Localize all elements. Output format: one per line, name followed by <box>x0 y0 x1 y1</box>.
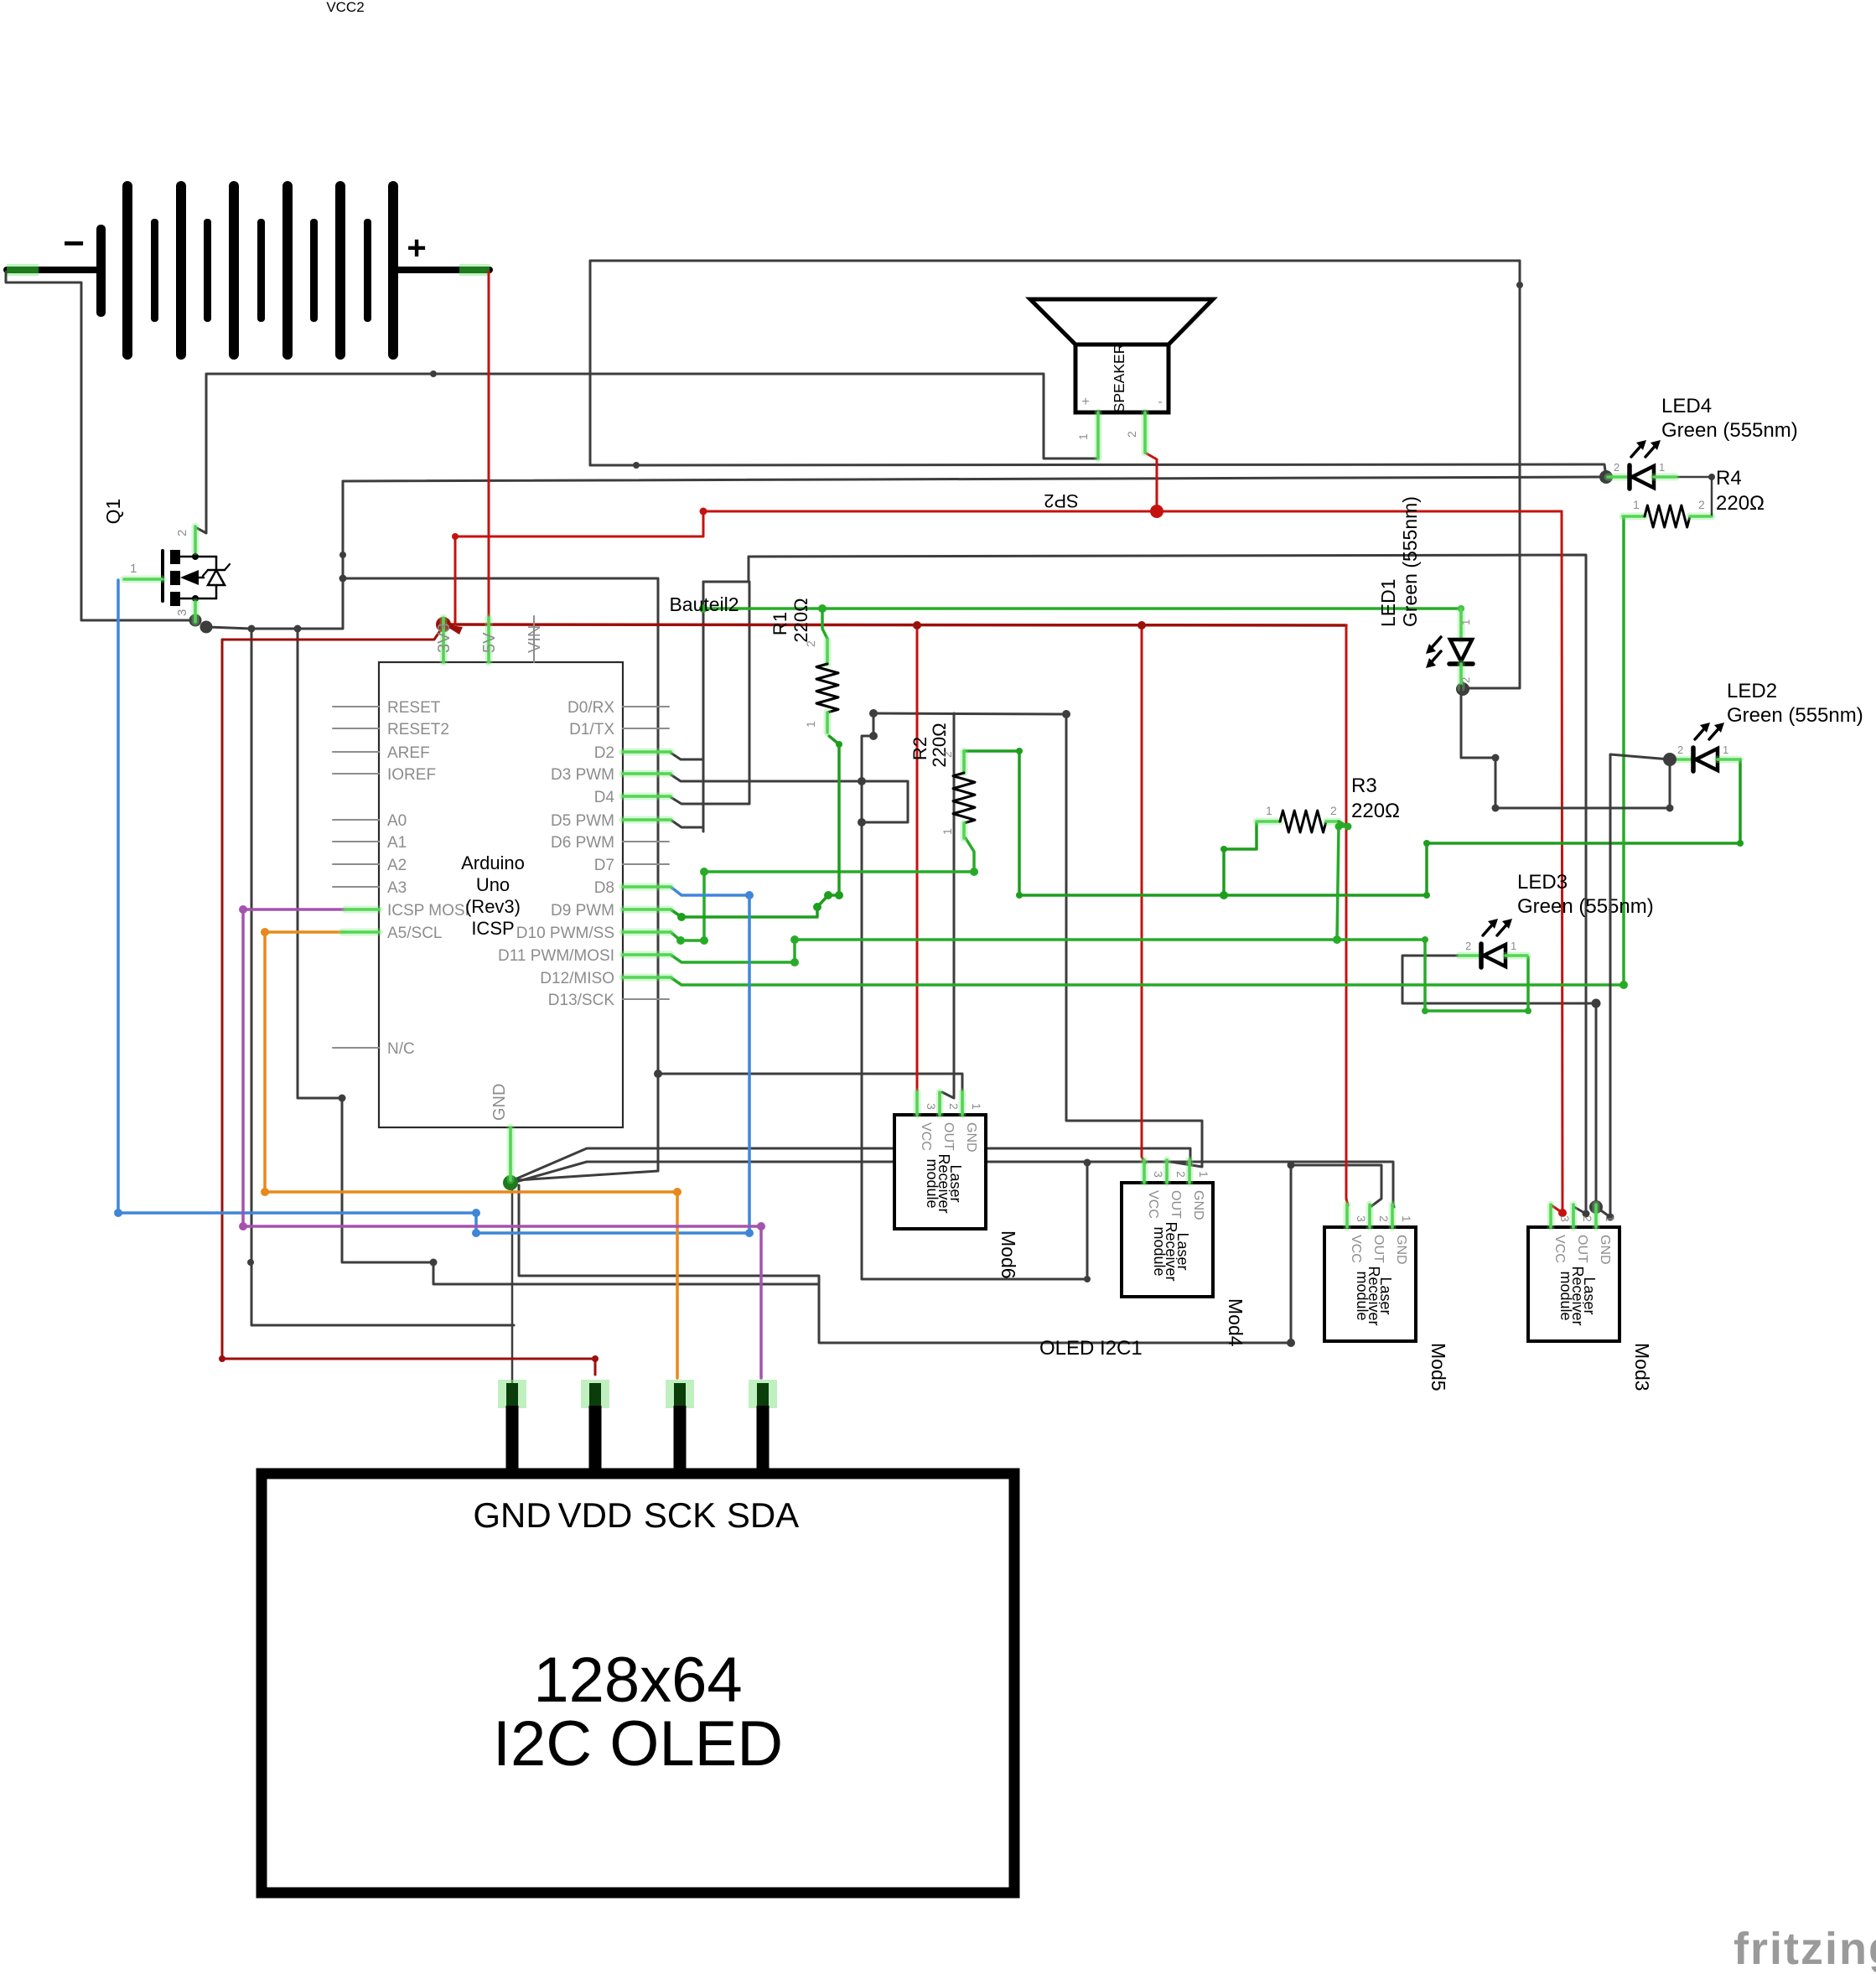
svg-text:220Ω: 220Ω <box>929 723 950 767</box>
svg-text:1: 1 <box>941 828 954 835</box>
svg-text:GND: GND <box>490 1084 509 1121</box>
LED LED2 <box>1671 756 1693 764</box>
svg-text:Uno: Uno <box>476 874 510 895</box>
svg-text:1: 1 <box>1400 1215 1413 1222</box>
LED LED1 (vertical) <box>1458 609 1465 640</box>
resistor R4 220 ohm (horizontal) <box>1623 513 1645 521</box>
wire Bauteil2 vertical (D2/D5) <box>702 582 705 832</box>
svg-text:D6 PWM: D6 PWM <box>551 834 614 852</box>
svg-text:2: 2 <box>1698 498 1705 511</box>
battery BAT1 <box>7 267 102 273</box>
svg-text:GND: GND <box>964 1122 978 1153</box>
svg-text:VCC2: VCC2 <box>326 0 364 15</box>
svg-text:A1: A1 <box>387 834 407 852</box>
module Mod4 laser receiver <box>1122 1183 1213 1297</box>
svg-text:LED4: LED4 <box>1661 395 1712 417</box>
mcu Arduino Uno U1 <box>379 662 623 1127</box>
svg-text:R4: R4 <box>1716 467 1742 490</box>
svg-text:module: module <box>1151 1226 1168 1276</box>
resistor R3 220 ohm (horizontal) <box>1257 818 1280 826</box>
svg-text:GND: GND <box>1598 1235 1612 1265</box>
svg-text:ICSP: ICSP <box>471 918 514 939</box>
svg-text:RESET2: RESET2 <box>387 721 449 738</box>
svg-text:SDA: SDA <box>727 1495 799 1535</box>
svg-text:1: 1 <box>1604 1215 1617 1222</box>
svg-text:Mod4: Mod4 <box>1225 1298 1246 1347</box>
wire 5V rail to Mod4 VCC <box>1142 625 1145 1163</box>
svg-text:SPEAKER: SPEAKER <box>1111 344 1127 413</box>
svg-text:R1: R1 <box>770 612 790 635</box>
wire GND stub node <box>503 1175 518 1190</box>
svg-text:LED3: LED3 <box>1517 871 1568 894</box>
module Mod3 laser receiver <box>1528 1227 1619 1341</box>
svg-text:D3 PWM: D3 PWM <box>551 766 614 784</box>
svg-text:220Ω: 220Ω <box>1351 800 1400 822</box>
svg-text:D8: D8 <box>594 879 614 897</box>
svg-text:A3: A3 <box>387 879 407 897</box>
svg-text:VCC: VCC <box>1349 1235 1363 1263</box>
svg-text:GND: GND <box>1394 1235 1408 1265</box>
svg-text:OUT: OUT <box>1371 1235 1386 1263</box>
svg-text:VIN: VIN <box>526 625 544 653</box>
svg-text:D2: D2 <box>594 744 614 762</box>
svg-text:GND: GND <box>473 1495 551 1535</box>
svg-text:module: module <box>1354 1271 1371 1320</box>
svg-text:+: + <box>1081 395 1089 409</box>
svg-text:D0/RX: D0/RX <box>567 699 614 717</box>
svg-text:LED1: LED1 <box>1377 578 1399 627</box>
wire Q1 drain riser to speaker plus <box>195 374 1098 533</box>
svg-text:R2: R2 <box>909 737 930 760</box>
wire SP2 net jog down to 5V rail <box>455 511 703 624</box>
svg-text:OUT: OUT <box>1169 1190 1183 1219</box>
svg-text:Green (555nm): Green (555nm) <box>1661 419 1798 442</box>
svg-text:1: 1 <box>1659 461 1665 474</box>
wire D5 jog <box>671 820 703 827</box>
svg-text:2: 2 <box>1459 677 1472 683</box>
display OLED 128x64 I2C <box>262 1474 1014 1893</box>
svg-text:−: − <box>63 223 85 264</box>
wire SP2 red horizontal <box>703 510 1562 513</box>
wire branch to Mod6 GND <box>658 1074 962 1092</box>
svg-text:2: 2 <box>1125 431 1138 438</box>
wire 5V rail to VDD (OLED) <box>222 624 595 1375</box>
svg-text:OLED I2C1: OLED I2C1 <box>1039 1337 1143 1360</box>
svg-text:2: 2 <box>1614 461 1619 474</box>
svg-text:Q1: Q1 <box>102 499 124 525</box>
svg-text:module: module <box>924 1158 941 1208</box>
svg-text:2: 2 <box>1377 1215 1391 1222</box>
svg-text:Bauteil2: Bauteil2 <box>669 593 738 615</box>
wire R2 pin2 to LED2 anode <box>964 751 1740 895</box>
wire LED1 anode rail <box>703 609 1461 612</box>
wire mesh rectangle under R2 <box>862 781 908 822</box>
svg-text:VCC: VCC <box>1146 1190 1160 1219</box>
wire R1 pin2 jog <box>822 609 827 639</box>
svg-text:A2: A2 <box>387 857 407 874</box>
svg-text:3: 3 <box>1355 1215 1368 1222</box>
svg-text:D5 PWM: D5 PWM <box>551 812 614 830</box>
svg-text:2: 2 <box>804 640 817 647</box>
wire upper horizontal to LED4 cathode <box>590 464 1606 477</box>
svg-text:D4: D4 <box>594 789 615 806</box>
svg-text:AREF: AREF <box>387 744 430 762</box>
svg-text:Mod5: Mod5 <box>1428 1343 1449 1391</box>
svg-text:2: 2 <box>175 530 189 536</box>
svg-text:(Rev3): (Rev3) <box>465 896 521 917</box>
wire y851 run to Mod4 OUT <box>873 713 1202 1167</box>
module Mod5 laser receiver <box>1324 1227 1416 1341</box>
svg-text:A5/SCL: A5/SCL <box>387 925 442 942</box>
wire GND fan to Mod4 GND <box>513 1148 1191 1180</box>
wire under-Mod6 loop <box>862 1163 1087 1279</box>
svg-text:1: 1 <box>1197 1171 1210 1178</box>
wire SP2 down to Mod3 VCC <box>1552 511 1562 1213</box>
svg-text:2: 2 <box>1465 940 1471 952</box>
wire battery plus down to 5V node <box>488 272 490 624</box>
svg-text:I2C OLED: I2C OLED <box>493 1708 783 1780</box>
svg-text:1: 1 <box>1459 619 1472 625</box>
svg-text:N/C: N/C <box>387 1040 415 1058</box>
wire speaker minus to SP2 <box>1145 453 1157 511</box>
svg-text:128x64: 128x64 <box>533 1645 742 1716</box>
wire D11 to R3 pin2 / LED3 anode <box>671 940 1528 1011</box>
svg-text:Arduino: Arduino <box>461 852 525 873</box>
svg-text:3: 3 <box>175 609 189 616</box>
wire branch y690 down left side <box>343 578 658 1180</box>
svg-text:D13/SCK: D13/SCK <box>548 992 615 1009</box>
svg-text:3: 3 <box>925 1103 938 1110</box>
wire ICSP MOSI purple to OLED SDA <box>243 909 761 1378</box>
svg-text:2: 2 <box>1174 1171 1188 1178</box>
wire D9 to R1 pin1 <box>671 736 839 917</box>
svg-text:SP2: SP2 <box>1044 490 1079 511</box>
wire R3 pin1 drop to LED2 net <box>1224 823 1257 895</box>
svg-text:fritzing: fritzing <box>1733 1924 1876 1974</box>
svg-text:3: 3 <box>1152 1171 1165 1178</box>
svg-text:Mod6: Mod6 <box>998 1231 1019 1279</box>
junction speaker minus <box>1150 505 1163 518</box>
speaker SP2 <box>1030 299 1213 345</box>
wire GND fan to Mod5 GND <box>513 1162 1394 1207</box>
junction LED4 cathode <box>1599 470 1613 484</box>
wire to Mod5 OUT <box>1291 1165 1381 1343</box>
wire D3 into lower mesh <box>671 775 862 781</box>
svg-text:3: 3 <box>1558 1215 1572 1222</box>
svg-text:2: 2 <box>1581 1215 1594 1222</box>
resistor R2 220 ohm (vertical) <box>961 751 968 773</box>
svg-text:LED2: LED2 <box>1727 680 1777 702</box>
svg-text:2: 2 <box>941 751 954 758</box>
junction Q1 source node <box>189 614 202 627</box>
svg-text:VCC: VCC <box>919 1122 933 1151</box>
svg-text:1: 1 <box>1511 940 1516 952</box>
svg-text:Green (555nm): Green (555nm) <box>1517 895 1654 918</box>
wire staircase x355 to OLED I2C1 line <box>298 629 819 1284</box>
svg-text:1: 1 <box>804 721 817 728</box>
wire Q1 source node right to x409 riser <box>206 481 343 629</box>
svg-text:OUT: OUT <box>941 1122 956 1151</box>
svg-text:module: module <box>1557 1271 1574 1320</box>
wire D12 to R4 pin1 <box>671 517 1624 985</box>
svg-text:VDD: VDD <box>558 1495 633 1535</box>
svg-text:A0: A0 <box>387 812 407 830</box>
wire 5V rail end to Mod5 VCC <box>1346 625 1348 1205</box>
LED LED4 <box>1608 474 1630 481</box>
wire top loop to LED1 cathode <box>590 261 1520 688</box>
wire long horizontal to LED4 cathode (lower) <box>343 477 1606 481</box>
wire D8 blue to Q1 gate <box>118 580 749 1233</box>
junction x300 <box>248 625 256 633</box>
svg-text:R3: R3 <box>1351 775 1377 797</box>
module Mod6 laser receiver <box>894 1115 986 1229</box>
svg-text:GND: GND <box>1191 1190 1205 1220</box>
svg-text:1: 1 <box>970 1103 983 1110</box>
svg-text:1: 1 <box>1076 433 1090 440</box>
wire OLED I2C1 run <box>519 1185 1291 1343</box>
svg-text:-: - <box>1158 395 1162 409</box>
svg-text:D1/TX: D1/TX <box>569 721 614 738</box>
svg-text:1: 1 <box>1633 498 1640 511</box>
svg-text:D9 PWM: D9 PWM <box>551 902 614 920</box>
wire LED1 cathode to LED2 cathode <box>1461 686 1670 808</box>
junction LED1 cathode <box>1456 682 1469 696</box>
wire Bauteil2 riser to Mod3 OUT <box>703 555 1586 1214</box>
svg-text:Green (555nm): Green (555nm) <box>1399 496 1421 627</box>
resistor R1 220 ohm (vertical) <box>824 640 832 664</box>
svg-text:IOREF: IOREF <box>387 766 436 784</box>
wire OLED GND pin <box>511 1184 514 1385</box>
svg-text:D10 PWM/SS: D10 PWM/SS <box>516 925 614 942</box>
svg-text:3V3: 3V3 <box>435 623 453 653</box>
svg-text:D7: D7 <box>594 857 614 874</box>
svg-text:D12/MISO: D12/MISO <box>540 970 614 987</box>
wire A5/SCL orange to OLED SCK <box>265 932 677 1378</box>
wire D10 to R2 pin1 <box>671 838 974 940</box>
svg-text:Green (555nm): Green (555nm) <box>1727 704 1863 727</box>
wire D4 riser <box>671 582 749 804</box>
wire LED2 cathode down to Mod3 GND <box>1599 754 1670 1217</box>
svg-text:D11 PWM/MOSI: D11 PWM/MOSI <box>498 947 614 965</box>
LED LED3 <box>1459 952 1481 960</box>
svg-text:1: 1 <box>1723 743 1728 756</box>
svg-text:220Ω: 220Ω <box>1716 492 1765 515</box>
svg-text:2: 2 <box>1330 804 1337 817</box>
svg-text:VCC: VCC <box>1552 1235 1567 1263</box>
svg-text:+: + <box>407 230 426 267</box>
svg-text:1: 1 <box>130 562 137 576</box>
junction 5V node <box>436 617 451 632</box>
svg-text:220Ω: 220Ω <box>790 598 811 642</box>
svg-text:Mod3: Mod3 <box>1631 1343 1653 1391</box>
wire 5V rail horizontal <box>444 624 1346 625</box>
wire D2 jog <box>671 753 703 759</box>
svg-text:ICSP MOSI: ICSP MOSI <box>387 902 469 920</box>
svg-text:5V: 5V <box>480 632 499 653</box>
wire riser to Mod6 OUT <box>942 713 954 1098</box>
wire 5V rail to Mod6 VCC <box>916 625 919 1092</box>
svg-text:OUT: OUT <box>1575 1235 1589 1263</box>
svg-text:RESET: RESET <box>387 699 441 717</box>
svg-text:SCK: SCK <box>644 1495 716 1535</box>
wire LED3 cathode to Mod3 GND net <box>1402 956 1596 1205</box>
svg-text:1: 1 <box>1266 804 1272 817</box>
svg-text:2: 2 <box>1677 743 1683 756</box>
wire left drop x300 to OLED GND line <box>251 629 514 1325</box>
wire battery minus to Q1 source node <box>6 272 195 620</box>
svg-text:2: 2 <box>947 1103 961 1110</box>
wire R3 pin2 drop <box>1337 826 1339 940</box>
